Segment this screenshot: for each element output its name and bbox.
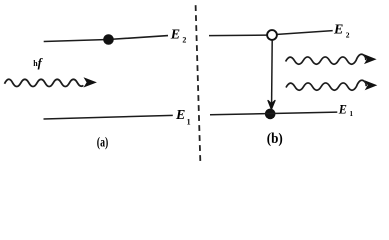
- emitted photon arrowhead 2 (panel b): [365, 80, 378, 90]
- transition arrow wire (panel b): [271, 40, 274, 103]
- svg-text:E: E: [175, 108, 185, 123]
- svg-text:1: 1: [187, 118, 191, 127]
- transition arrowhead (panel b): [268, 101, 275, 110]
- dashed divider line: [196, 5, 201, 161]
- emitted photon wavy arrow 1 (panel b): [286, 54, 366, 64]
- svg-text:E: E: [170, 28, 180, 43]
- svg-text:2: 2: [346, 31, 350, 40]
- svg-text:f: f: [38, 56, 44, 70]
- svg-text:1: 1: [350, 110, 354, 118]
- energy level line E2 (panel a): [44, 36, 168, 42]
- photon wavy arrow (panel a): [5, 79, 84, 86]
- svg-text:E: E: [333, 22, 343, 37]
- emitted photon arrowhead 1 (panel b): [364, 54, 377, 64]
- electron dot on E1 (panel b): [265, 109, 276, 120]
- svg-text:E: E: [338, 102, 347, 116]
- energy level line E1 (panel a): [44, 115, 173, 119]
- energy level line E1 (panel b): [210, 112, 337, 115]
- electron dot on E2 (panel a): [103, 34, 114, 45]
- energy level line E2 (panel b), left segment: [209, 34, 267, 37]
- svg-text:(a): (a): [97, 134, 109, 150]
- photon arrowhead (panel a): [84, 77, 97, 87]
- emitted photon wavy arrow 2 (panel b): [286, 80, 366, 90]
- svg-text:(b): (b): [267, 131, 283, 147]
- energy level line E2 (panel b), right segment: [278, 31, 333, 35]
- svg-text:2: 2: [182, 36, 186, 45]
- open circle (vacancy) on E2 (panel b): [267, 30, 277, 40]
